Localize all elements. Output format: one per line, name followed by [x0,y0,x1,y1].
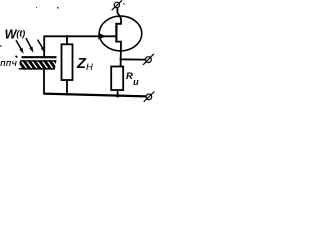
svg-text:ППЧ: ППЧ [0,61,17,68]
svg-text:Н: Н [86,62,93,73]
